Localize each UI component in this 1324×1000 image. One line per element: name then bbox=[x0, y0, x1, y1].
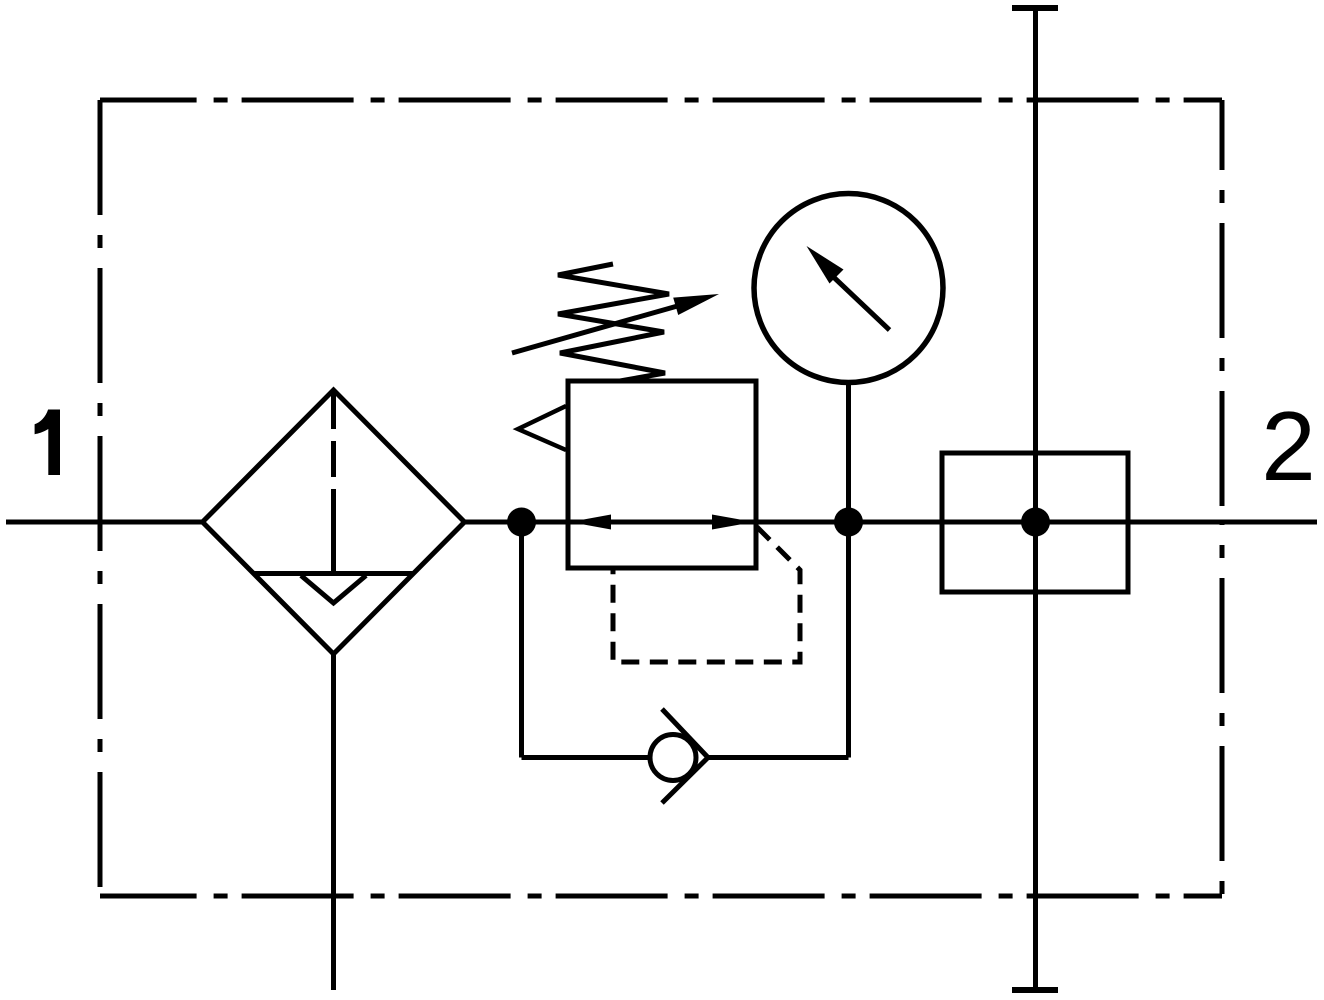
valve line bottom end cap bbox=[1012, 987, 1058, 993]
wire: gauge stem bbox=[846, 382, 851, 522]
filter element dashed centerline bbox=[331, 393, 336, 524]
enclosure border (dash-dot) top edge bbox=[100, 98, 1222, 103]
wire: bypass up to node B bbox=[846, 522, 851, 758]
regulator adjustment arrow head bbox=[673, 294, 719, 315]
wire: valve actuation vertical line bbox=[1033, 8, 1038, 990]
wire: bypass bottom right segment bbox=[708, 755, 849, 760]
enclosure border bottom edge bbox=[100, 894, 1222, 899]
svg-text:2: 2 bbox=[1261, 391, 1316, 501]
regulator flow arrow right head bbox=[712, 515, 754, 530]
wire: bypass bottom left segment bbox=[522, 755, 651, 760]
filter condensate baffle chord bbox=[254, 571, 414, 576]
node A junction dot bbox=[507, 508, 536, 537]
node B junction dot bbox=[834, 508, 863, 537]
regulator relief vent triangle bbox=[518, 406, 566, 450]
node C junction dot bbox=[1021, 508, 1050, 537]
shut-off valve V1 body box bbox=[942, 453, 1128, 592]
enclosure border right edge lower part bbox=[1220, 522, 1225, 896]
regulator spring bbox=[558, 264, 669, 381]
regulator flow arrow left head bbox=[570, 515, 611, 530]
port label 1 bbox=[35, 410, 60, 476]
gauge needle shaft bbox=[834, 278, 890, 331]
wire: bypass down from node A bbox=[519, 522, 524, 758]
check valve CV1 ball bbox=[650, 735, 696, 781]
wire: main line left segment (port 1 to filter) bbox=[6, 520, 203, 525]
pilot line (dashed) from regulator to outlet bbox=[613, 527, 800, 662]
enclosure border left edge bbox=[98, 100, 103, 896]
regulator adjustment arrow shaft bbox=[512, 305, 681, 353]
pressure gauge G1 dial bbox=[754, 194, 943, 383]
check valve seat lower arm bbox=[662, 758, 708, 804]
filter F1 diamond body bbox=[203, 390, 465, 654]
enclosure border right edge bbox=[1220, 100, 1225, 522]
wire: condensate drain line bbox=[331, 654, 336, 990]
regulator R1 body box bbox=[568, 381, 756, 568]
filter condensate drain triangle bbox=[301, 576, 366, 604]
check valve seat upper arm bbox=[662, 709, 708, 758]
gauge needle arrow head bbox=[807, 246, 844, 284]
valve line top end cap bbox=[1012, 5, 1058, 11]
filter centerline solid lower part bbox=[331, 524, 336, 573]
wire: main line right segment (filter to port 2) bbox=[464, 520, 1317, 525]
